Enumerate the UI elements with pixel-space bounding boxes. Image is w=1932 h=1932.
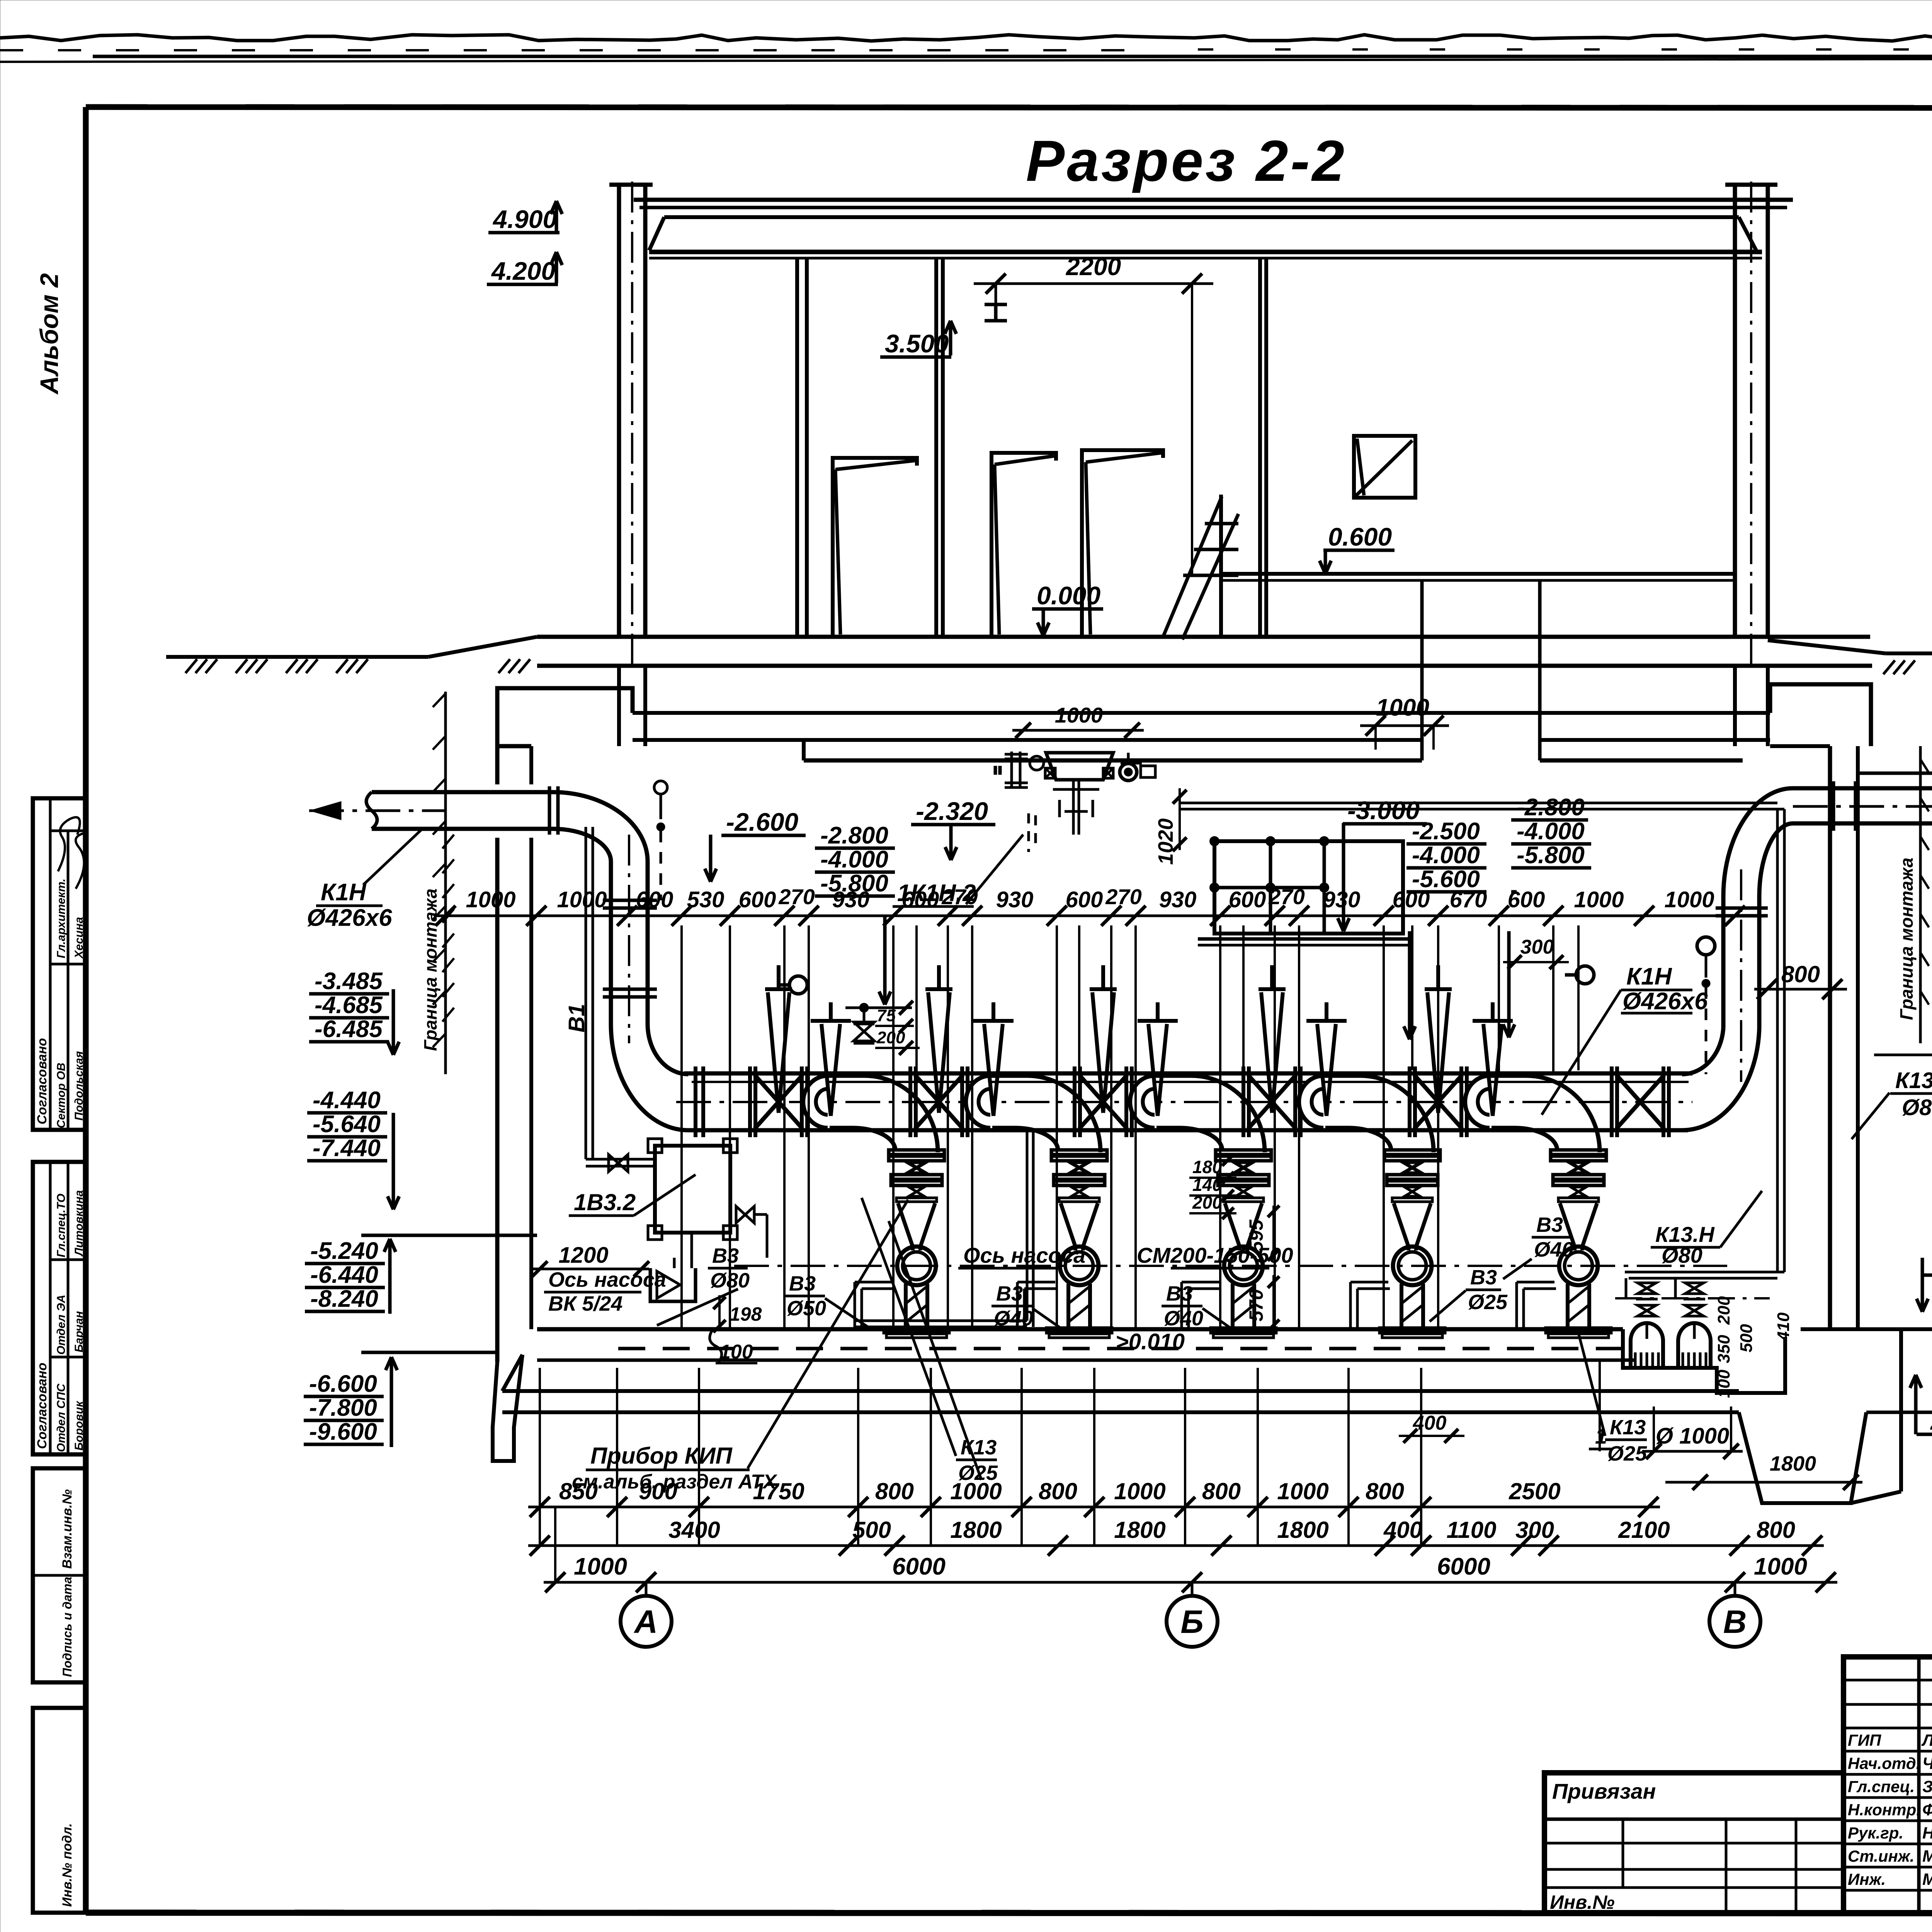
monorail support — [802, 740, 806, 760]
svg-text:Чмелев: Чмелев — [1922, 1754, 1932, 1773]
pump VK5/24 — [650, 1268, 696, 1301]
svg-text:Отдел ЭА: Отдел ЭА — [55, 1295, 68, 1355]
door leaf 2 — [992, 453, 1056, 637]
svg-text:К13Н: К13Н — [1895, 1068, 1932, 1093]
ground line left — [166, 655, 428, 659]
wall left foundation — [493, 1355, 522, 1461]
right wall pit — [1899, 1329, 1903, 1492]
svg-text:Разрез 2-2: Разрез 2-2 — [1026, 128, 1347, 193]
drawing frame border — [86, 107, 1932, 108]
stamp block Взам.инв.№ — [33, 1468, 86, 1682]
pump hall floor — [537, 1327, 1623, 1332]
building roof slab — [634, 198, 1793, 202]
pump unit 4 — [1350, 1150, 1445, 1338]
svg-text:В: В — [1723, 1604, 1747, 1640]
svg-text:-2.800: -2.800 — [1517, 794, 1585, 821]
svg-text:Боровик: Боровик — [73, 1400, 85, 1451]
axis line В — [1734, 1582, 1736, 1596]
pressure gauge 2 — [1576, 966, 1594, 984]
wall hatch window — [1354, 436, 1415, 498]
svg-text:Злотников: Злотников — [1922, 1777, 1932, 1796]
basement wall left — [495, 746, 500, 784]
svg-text:4.900: 4.900 — [492, 205, 557, 233]
svg-text:Подольская: Подольская — [73, 1051, 85, 1121]
svg-text:800: 800 — [1366, 1478, 1404, 1504]
svg-text:В1: В1 — [564, 1004, 589, 1032]
svg-text:-4.000: -4.000 — [1517, 818, 1585, 845]
svg-text:300: 300 — [1515, 1517, 1554, 1543]
page scan top edge — [0, 35, 1932, 41]
flow arrow right — [1793, 805, 1932, 808]
gnome pit — [1623, 1329, 1785, 1393]
svg-text:А: А — [634, 1604, 658, 1640]
return bends — [803, 1076, 828, 1128]
svg-text:200: 200 — [1192, 1192, 1222, 1213]
svg-text:Граница монтажа: Граница монтажа — [420, 888, 440, 1051]
vent pipe with flanges — [1010, 752, 1013, 787]
descending elbows — [828, 1076, 938, 1152]
pipe 1K1H.2 dashes — [1027, 813, 1030, 852]
svg-text:-2.320: -2.320 — [916, 797, 988, 825]
interior wall 1 — [795, 258, 799, 637]
page top thin line — [0, 58, 1932, 62]
svg-text:-8.240: -8.240 — [310, 1286, 378, 1312]
svg-text:1000: 1000 — [574, 1553, 627, 1580]
svg-text:1: 1 — [1595, 1424, 1607, 1448]
pump unit 3 — [1182, 1150, 1276, 1338]
svg-text:Прибор КИП: Прибор КИП — [590, 1443, 733, 1469]
svg-text:1200: 1200 — [558, 1243, 608, 1268]
building column right — [1733, 185, 1737, 637]
outlet pipe K1H right — [1793, 786, 1932, 791]
svg-text:200: 200 — [1714, 1296, 1733, 1325]
pipe elbow top left — [553, 792, 648, 862]
svg-text:Ø40: Ø40 — [1164, 1307, 1203, 1330]
pressure gauge 1 — [789, 976, 807, 994]
interior wall 2 — [934, 258, 938, 637]
svg-text:Ø426х6: Ø426х6 — [307, 905, 392, 931]
svg-text:0.600: 0.600 — [1328, 522, 1392, 551]
svg-text:3.500: 3.500 — [885, 329, 949, 358]
svg-text:Ø50: Ø50 — [787, 1297, 826, 1320]
check valve bypass 75 — [861, 1004, 867, 1011]
flow arrow left — [309, 810, 444, 812]
flange marks right riser — [1716, 906, 1768, 910]
svg-text:см.альб. раздел АТХ: см.альб. раздел АТХ — [572, 1471, 778, 1493]
drain pipe B3 — [854, 1320, 1027, 1322]
lower landing left — [361, 1234, 537, 1237]
svg-text:Согласовано: Согласовано — [35, 1362, 49, 1449]
svg-text:930: 930 — [1159, 887, 1197, 912]
svg-text:2100: 2100 — [1618, 1517, 1670, 1543]
axis line Б — [1191, 1582, 1194, 1596]
svg-text:Ø80: Ø80 — [1902, 1095, 1932, 1120]
title block attach table — [1544, 1773, 1844, 1913]
tank 1B3.2 — [655, 1146, 730, 1233]
svg-text:600: 600 — [1229, 887, 1266, 912]
svg-text:Инж.: Инж. — [1848, 1870, 1886, 1888]
svg-text:В3: В3 — [789, 1272, 816, 1295]
svg-text:Гл.спец.: Гл.спец. — [1848, 1777, 1915, 1796]
svg-text:Хесина: Хесина — [73, 917, 85, 959]
ground floor slab — [537, 635, 1870, 639]
floor slab bottom — [502, 1389, 1739, 1393]
gauge on riser B1 — [654, 781, 667, 794]
title block signature table — [1844, 1657, 1932, 1913]
svg-text:ГИП: ГИП — [1848, 1731, 1881, 1749]
stamp block Согласовано ОВ — [33, 798, 86, 1130]
dimension row 2 — [528, 1544, 1824, 1547]
svg-text:Макаренко: Макаренко — [1922, 1870, 1932, 1889]
basement wall right — [1770, 684, 1871, 746]
stamp block Согласовано СПС — [33, 1162, 86, 1454]
svg-text:-3.485: -3.485 — [315, 968, 383, 995]
axis line A — [645, 1582, 648, 1596]
svg-text:-9.600: -9.600 — [309, 1418, 377, 1445]
inlet flange pair — [548, 786, 551, 835]
svg-text:ВК 5/24: ВК 5/24 — [548, 1292, 622, 1315]
svg-text:К13: К13 — [1610, 1416, 1646, 1439]
svg-text:Рук.гр.: Рук.гр. — [1848, 1824, 1903, 1842]
svg-text:-4.000: -4.000 — [1412, 842, 1480, 869]
gauge right riser — [1697, 937, 1715, 955]
svg-text:1800: 1800 — [950, 1517, 1002, 1543]
svg-text:-7.800: -7.800 — [309, 1395, 377, 1421]
raised floor right — [1221, 572, 1735, 576]
manifold gate valves — [750, 1066, 807, 1137]
svg-text:Нарыжная: Нарыжная — [1922, 1824, 1932, 1842]
svg-text:800: 800 — [1757, 1517, 1795, 1543]
building roof beam — [664, 215, 1739, 219]
svg-text:1000: 1000 — [466, 887, 515, 912]
door leaf 1 — [833, 458, 917, 637]
tank outlet valve — [736, 1206, 754, 1223]
pulley block — [1120, 764, 1137, 781]
svg-text:Ø40: Ø40 — [994, 1307, 1033, 1330]
hook — [1071, 835, 1082, 854]
svg-text:270: 270 — [1268, 884, 1304, 909]
svg-text:595: 595 — [1245, 1219, 1267, 1252]
wall right ledge -1.300 — [1858, 772, 1932, 775]
svg-text:1000: 1000 — [557, 887, 607, 912]
svg-text:-2.800: -2.800 — [820, 822, 888, 849]
svg-text:>0.010: >0.010 — [1116, 1329, 1185, 1354]
stamp block Инв.№ подл. — [33, 1708, 86, 1913]
svg-text:1800: 1800 — [1277, 1517, 1328, 1543]
svg-text:Ст.инж.: Ст.инж. — [1848, 1847, 1914, 1865]
svg-text:Н.контр.: Н.контр. — [1848, 1801, 1921, 1819]
svg-text:Привязан: Привязан — [1552, 1779, 1656, 1803]
svg-text:Инв.№ подл.: Инв.№ подл. — [60, 1823, 75, 1907]
boundary line right Граница монтажа — [1919, 746, 1922, 1043]
svg-text:-6.600: -6.600 — [309, 1371, 377, 1397]
building column left — [617, 185, 621, 637]
svg-text:В3: В3 — [1470, 1266, 1497, 1289]
svg-text:Инв.№: Инв.№ — [1550, 1891, 1615, 1913]
svg-text:1800: 1800 — [1114, 1517, 1165, 1543]
svg-text:300: 300 — [1520, 936, 1554, 958]
svg-text:Б: Б — [1180, 1604, 1203, 1640]
svg-text:-5.800: -5.800 — [820, 870, 888, 897]
svg-text:Альбом 2: Альбом 2 — [35, 273, 63, 395]
svg-text:-6.485: -6.485 — [315, 1016, 383, 1043]
svg-text:2500: 2500 — [1509, 1478, 1560, 1504]
svg-text:400: 400 — [1383, 1517, 1422, 1543]
svg-text:1020: 1020 — [1154, 818, 1177, 865]
monorail beam underground — [804, 759, 1422, 763]
column pilaster below floor right — [1733, 666, 1737, 746]
svg-text:6000: 6000 — [892, 1553, 946, 1580]
stair railing — [1219, 495, 1223, 637]
riser pipe left — [609, 862, 613, 1024]
svg-text:270: 270 — [1105, 884, 1141, 909]
svg-text:Гл.спец.ТО: Гл.спец.ТО — [55, 1194, 68, 1257]
svg-text:6000: 6000 — [1437, 1553, 1490, 1580]
svg-text:1000: 1000 — [1277, 1478, 1328, 1504]
svg-text:Гл.архитект.: Гл.архитект. — [55, 879, 68, 958]
svg-text:Отдел СПС: Отдел СПС — [55, 1383, 68, 1452]
svg-text:-5.800: -5.800 — [1517, 842, 1585, 869]
svg-text:198: 198 — [730, 1303, 762, 1325]
svg-text:Ø40: Ø40 — [1534, 1238, 1573, 1261]
svg-text:Барчан: Барчан — [73, 1311, 85, 1352]
svg-text:Сектор ОВ: Сектор ОВ — [55, 1063, 68, 1128]
ceiling opening — [1420, 580, 1424, 760]
svg-text:Граница монтажа: Граница монтажа — [1896, 857, 1917, 1020]
pipe elbow bottom right — [1682, 1028, 1759, 1130]
basement wall left cap — [497, 688, 633, 746]
pipe elbow top right — [1723, 788, 1793, 896]
svg-text:570: 570 — [1245, 1289, 1267, 1321]
inlet pipe K1H left — [372, 790, 553, 794]
svg-text:800: 800 — [1039, 1478, 1077, 1504]
svg-text:К1Н: К1Н — [321, 879, 367, 906]
svg-text:-4.440: -4.440 — [313, 1087, 381, 1114]
svg-text:-2.500: -2.500 — [1412, 818, 1480, 845]
monorail I-beam mark — [985, 303, 1007, 306]
svg-text:270: 270 — [778, 884, 815, 909]
svg-text:Согласовано: Согласовано — [35, 1038, 49, 1124]
pipe elbow bottom left — [611, 1024, 688, 1130]
svg-text:Взам.инв.№: Взам.инв.№ — [60, 1489, 75, 1569]
svg-text:1К1Н.2: 1К1Н.2 — [897, 880, 976, 906]
svg-text:140: 140 — [1192, 1175, 1222, 1195]
right pipe wall flanges — [1832, 781, 1835, 831]
svg-text:600: 600 — [739, 887, 776, 912]
hoist trolley — [1046, 753, 1113, 780]
control panel — [1214, 841, 1403, 934]
manifold pipe — [684, 1071, 1692, 1076]
svg-text:Ø80: Ø80 — [710, 1269, 750, 1292]
valve stems short — [811, 1002, 851, 1116]
svg-text:-4.685: -4.685 — [315, 992, 383, 1019]
projection lines to dims — [539, 1368, 541, 1546]
svg-text:600: 600 — [1066, 887, 1103, 912]
svg-text:1В3.2: 1В3.2 — [574, 1189, 636, 1215]
pump unit 2 — [1017, 1150, 1112, 1338]
projection lines — [680, 925, 683, 1327]
main dimension chain — [434, 915, 1747, 917]
svg-text:1000: 1000 — [1754, 1553, 1807, 1580]
svg-text:0.000: 0.000 — [1037, 581, 1100, 610]
svg-text:СМ200-150-500: СМ200-150-500 — [1137, 1243, 1293, 1267]
svg-text:Ø25: Ø25 — [1468, 1291, 1508, 1314]
gnome pumps — [1631, 1283, 1663, 1366]
svg-text:Фомиль: Фомиль — [1922, 1801, 1932, 1819]
pump unit 5 — [1517, 1150, 1611, 1338]
svg-text:Лялюк: Лялюк — [1921, 1731, 1932, 1750]
K13H pipe right — [1776, 809, 1779, 1272]
water pipe B1 — [585, 827, 587, 1159]
dimension row 1 — [528, 1506, 1660, 1509]
column pilaster below floor left — [617, 666, 621, 746]
svg-text:3400: 3400 — [668, 1517, 720, 1543]
svg-text:Ø80: Ø80 — [1662, 1243, 1702, 1267]
dimension row 3 — [544, 1581, 1837, 1584]
interior wall 3 — [1258, 258, 1262, 637]
svg-text:800: 800 — [1202, 1478, 1241, 1504]
svg-text:В3: В3 — [1166, 1282, 1193, 1305]
sump pit deep — [1739, 1412, 1866, 1503]
svg-text:930: 930 — [1323, 887, 1361, 912]
riser pipe right — [1721, 896, 1726, 1028]
pump axis line — [734, 1265, 1727, 1267]
svg-text:500: 500 — [1737, 1324, 1756, 1352]
svg-text:В3: В3 — [712, 1244, 739, 1267]
svg-text:-5.600: -5.600 — [1412, 866, 1480, 893]
svg-text:-6.440: -6.440 — [310, 1262, 378, 1288]
svg-text:1800: 1800 — [1770, 1452, 1816, 1475]
svg-text:-4.000: -4.000 — [820, 846, 888, 873]
svg-text:100: 100 — [719, 1341, 753, 1363]
svg-text:Ось насоса: Ось насоса — [548, 1268, 666, 1291]
svg-text:В3: В3 — [996, 1282, 1023, 1305]
svg-text:Ø426х6: Ø426х6 — [1622, 988, 1708, 1015]
svg-text:180: 180 — [1192, 1157, 1222, 1177]
svg-text:800: 800 — [875, 1478, 914, 1504]
pump unit 1 — [855, 1150, 949, 1338]
svg-text:-2.600: -2.600 — [726, 808, 798, 836]
svg-text:В3: В3 — [1536, 1213, 1563, 1236]
svg-text:Майстро: Майстро — [1922, 1847, 1932, 1866]
flange marks riser — [603, 899, 657, 902]
svg-text:930: 930 — [996, 887, 1034, 912]
svg-text:1000: 1000 — [1055, 703, 1103, 727]
svg-text:100: 100 — [1714, 1369, 1733, 1398]
svg-text:-5.240: -5.240 — [310, 1238, 378, 1264]
boundary line left Граница монтажа — [444, 692, 447, 1074]
svg-text:1100: 1100 — [1446, 1517, 1496, 1543]
svg-text:Подпись и дата: Подпись и дата — [60, 1577, 74, 1677]
K13H header pipe — [1179, 802, 1777, 804]
svg-text:530: 530 — [687, 887, 724, 912]
svg-text:-5.640: -5.640 — [313, 1111, 381, 1138]
svg-text:410: 410 — [1774, 1312, 1793, 1341]
svg-text:Ø 1000: Ø 1000 — [1656, 1423, 1729, 1449]
svg-text:Нач.отд.: Нач.отд. — [1848, 1754, 1920, 1772]
svg-text:-3.000: -3.000 — [1347, 796, 1420, 825]
svg-text:1000: 1000 — [1664, 887, 1714, 912]
valve stems tall — [765, 965, 792, 1113]
svg-text:350: 350 — [1714, 1335, 1733, 1363]
svg-text:2200: 2200 — [1066, 253, 1121, 281]
ground line right — [1768, 640, 1886, 653]
door leaf 3 — [1082, 450, 1163, 637]
svg-text:Литовкина: Литовкина — [73, 1190, 85, 1257]
valve on B1 — [609, 1155, 628, 1172]
svg-text:1000: 1000 — [1574, 887, 1624, 912]
svg-text:1000: 1000 — [1114, 1478, 1165, 1504]
basement ceiling slab — [633, 711, 1770, 715]
svg-text:Ø25: Ø25 — [1607, 1442, 1647, 1465]
break mark 100 — [710, 1329, 722, 1363]
svg-text:Ось насоса: Ось насоса — [963, 1243, 1085, 1267]
svg-text:К1Н: К1Н — [1626, 963, 1672, 990]
wall sleeve hatch — [442, 835, 454, 849]
svg-text:4.200: 4.200 — [491, 257, 555, 285]
svg-text:800: 800 — [1781, 961, 1820, 987]
svg-text:-7.440: -7.440 — [313, 1135, 381, 1162]
svg-text:2: 2 — [1930, 1409, 1932, 1435]
svg-text:600: 600 — [636, 887, 673, 912]
